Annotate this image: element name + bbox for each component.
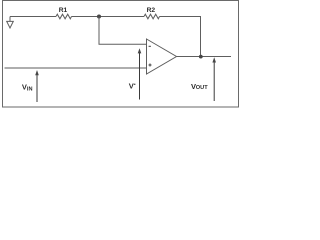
ground <box>7 17 14 29</box>
wire feedback tap: node A down and right to inverting input <box>99 17 147 45</box>
wire op-amp output <box>177 56 232 58</box>
svg-text:V: V <box>129 81 134 90</box>
resistor R2 <box>144 14 160 19</box>
VIN annotation arrow <box>22 70 39 102</box>
wire R1 to R2 <box>72 16 145 18</box>
wire R2 to feedback corner and down to output node <box>160 17 201 57</box>
wire bottom rail to non-inverting input <box>5 67 147 69</box>
resistor R1 <box>56 14 72 19</box>
svg-text:OUT: OUT <box>196 85 208 91</box>
op-amp U1 <box>147 39 177 74</box>
node B (output junction dot) <box>199 55 203 59</box>
VOUT annotation arrow <box>191 57 216 101</box>
node A (junction dot on top rail) <box>97 15 101 19</box>
svg-text:IN: IN <box>27 87 33 93</box>
V- annotation arrow <box>129 48 142 99</box>
wire ground to R1 <box>10 16 56 18</box>
svg-text:R2: R2 <box>147 7 156 14</box>
svg-text:R1: R1 <box>59 7 68 14</box>
